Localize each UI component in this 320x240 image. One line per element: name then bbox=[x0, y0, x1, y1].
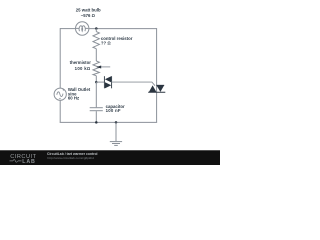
diac D1 bbox=[104, 76, 111, 88]
svg-text:thermistor: thermistor bbox=[70, 60, 92, 65]
wire thermistor to node B bbox=[95, 76, 97, 82]
wire left rail lower bbox=[59, 100, 61, 122]
wire right rail bbox=[156, 28, 158, 122]
wire top from left corner to bulb bbox=[60, 28, 75, 30]
wire bottom bbox=[60, 121, 157, 123]
svg-text:?? Ω: ?? Ω bbox=[101, 41, 111, 46]
lamp L1 25 watt bulb bbox=[76, 22, 89, 35]
svg-text:100 nF: 100 nF bbox=[106, 108, 121, 113]
wire capacitor to bottom bbox=[95, 111, 97, 122]
resistor R2 thermistor (potentiometer) bbox=[93, 61, 99, 76]
capacitor C1 bbox=[90, 108, 103, 111]
node C junction dot bottom left bbox=[95, 121, 98, 124]
footer bar bbox=[0, 150, 220, 165]
wire stub node A to control resistor bbox=[95, 29, 97, 32]
logo wave LAB bbox=[10, 159, 36, 165]
wire node B to diac bbox=[96, 81, 104, 83]
node B junction dot middle bbox=[95, 81, 98, 84]
svg-text:60 Hz: 60 Hz bbox=[68, 96, 79, 101]
wire left rail upper bbox=[59, 28, 61, 88]
svg-text:100 kΩ: 100 kΩ bbox=[75, 66, 91, 71]
svg-text:~576 Ω: ~576 Ω bbox=[81, 13, 96, 18]
AC source V1 wall outlet bbox=[54, 88, 66, 100]
svg-text:http://www.circuitlab.com/cg6p: http://www.circuitlab.com/cg6pkbd bbox=[47, 156, 94, 160]
svg-text:LAB: LAB bbox=[22, 159, 36, 165]
wire between resistors bbox=[95, 49, 97, 61]
wire node B down to capacitor bbox=[95, 82, 97, 107]
wire top from bulb to right corner bbox=[89, 28, 157, 30]
node A junction dot top bbox=[95, 27, 98, 30]
triac Q1 bbox=[148, 85, 165, 92]
wire diac to triac gate bbox=[112, 82, 155, 86]
wiper arrow of thermistor bbox=[96, 66, 110, 69]
resistor R1 control resistor bbox=[93, 32, 99, 49]
ground bbox=[110, 122, 122, 145]
node D junction dot ground bbox=[115, 121, 118, 124]
